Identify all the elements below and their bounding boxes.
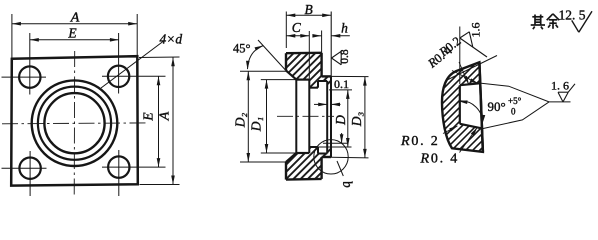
dimension E top	[30, 39, 119, 41]
roughness 0.8 symbol	[332, 51, 342, 58]
wedge line lower	[483, 102, 549, 129]
R0.2 bottom leader	[443, 126, 457, 134]
boss top surface	[322, 75, 331, 77]
svg-text:A: A	[158, 111, 173, 121]
dimension B	[285, 12, 287, 49]
centerlines hole TR	[102, 75, 166, 77]
Chinese text QiYu (rest) drawn as strokes	[534, 15, 536, 25]
plate right face upper	[320, 53, 322, 77]
section top edge	[286, 52, 322, 55]
dimension E right	[158, 76, 160, 167]
R0.4 bottom leader	[460, 128, 477, 153]
plate right face lower	[320, 157, 322, 179]
svg-text:0.1: 0.1	[334, 77, 349, 91]
R0.2 top leader	[459, 62, 469, 84]
counterbore D1 surface bottom	[296, 152, 309, 154]
svg-text:C: C	[292, 20, 302, 35]
left face upper	[285, 53, 287, 70]
dimension D right	[329, 89, 352, 91]
detail circle b	[314, 140, 348, 174]
svg-text:A: A	[70, 11, 80, 26]
svg-text:4×d: 4×d	[160, 32, 183, 47]
boss circle D3	[32, 80, 118, 166]
dimension D2	[240, 70, 288, 72]
chamfer 45 top	[286, 71, 296, 80]
counterbore circle D1	[38, 87, 111, 160]
dimension A top	[11, 14, 13, 58]
dimension h	[313, 35, 321, 37]
boss right face	[330, 76, 332, 157]
svg-text:R0. 4: R0. 4	[420, 151, 460, 166]
dimension A right	[139, 56, 180, 59]
wedge line upper	[481, 83, 549, 102]
R0.4 top leader	[452, 71, 478, 84]
centerlines hole TL	[2, 76, 47, 78]
svg-text:0.8: 0.8	[339, 49, 351, 64]
svg-text:+5°: +5°	[508, 96, 522, 106]
svg-text:45°: 45°	[233, 42, 251, 56]
counterbore D1 surface top	[296, 78, 309, 80]
detail groove notch	[460, 83, 483, 128]
bore D surface top	[309, 87, 318, 89]
bore D surface bottom	[309, 146, 318, 148]
chamfer 45 bottom	[286, 153, 296, 162]
svg-text:1.6: 1.6	[469, 23, 483, 38]
general roughness check symbol	[572, 20, 579, 32]
detail right face	[479, 62, 483, 152]
recessed land face	[326, 81, 328, 154]
counterbore mouth edge vertical	[295, 80, 297, 153]
detail label b leader	[337, 161, 343, 176]
section bottom edge	[286, 178, 322, 181]
dimension D1	[261, 79, 296, 81]
bolt hole bottom-right	[108, 156, 129, 177]
svg-text:E: E	[141, 112, 156, 122]
svg-text:D₂: D₂	[233, 112, 248, 128]
notch left wall (groove bottom)	[459, 85, 461, 124]
square flange plate outline	[11, 56, 138, 185]
4xd leader and label	[101, 42, 163, 89]
horizontal centerline main	[2, 122, 147, 125]
svg-text:h: h	[341, 21, 348, 36]
svg-text:B: B	[304, 2, 312, 17]
svg-text:90°: 90°	[488, 99, 506, 114]
section axis centerline	[277, 115, 334, 117]
svg-text:D₁: D₁	[249, 117, 264, 132]
h extension line up	[321, 31, 323, 53]
C extension line	[308, 31, 310, 80]
svg-text:D₃: D₃	[349, 111, 364, 127]
top edge extension	[446, 56, 497, 81]
svg-text:D: D	[333, 115, 348, 126]
apex extension line	[549, 101, 571, 103]
bolt hole top-left	[19, 66, 40, 87]
svg-text:E: E	[67, 26, 77, 41]
svg-text:1. 6: 1. 6	[551, 78, 569, 92]
roughness 1.6 right symbol	[558, 92, 563, 102]
groove surface bottom	[318, 153, 327, 155]
dimension C	[286, 35, 309, 37]
notch top wall	[460, 83, 482, 85]
groove surface top	[318, 80, 327, 82]
groove wall bottom	[317, 147, 319, 154]
vertical centerline main	[73, 51, 76, 197]
bolt hole bottom-left	[19, 158, 40, 179]
45 deg chamfer extension	[258, 40, 286, 71]
svg-text:R0. 2: R0. 2	[400, 134, 440, 149]
left face lower	[285, 162, 287, 180]
90deg angle arc	[458, 101, 482, 124]
centerlines hole BL	[2, 167, 47, 169]
boss bottom surface	[322, 156, 331, 158]
bore circle D	[44, 93, 104, 153]
45 deg angle arc	[248, 46, 264, 70]
notch bottom wall	[460, 124, 483, 129]
roughness 1.6 top symbol	[459, 27, 461, 85]
dimension D3	[331, 75, 369, 77]
groove wall top	[317, 81, 319, 88]
bore step edge vertical	[308, 80, 310, 153]
centerlines hole BR	[102, 166, 166, 168]
bolt hole top-right	[108, 66, 129, 87]
svg-text:0: 0	[511, 107, 516, 117]
